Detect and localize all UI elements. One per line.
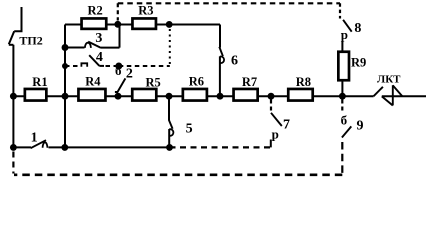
svg-text:R9: R9 (351, 55, 366, 69)
resistor R4 (78, 89, 105, 101)
node switch1 line x13.4 (10, 144, 17, 151)
switch 6 upper wire (219, 25, 221, 48)
svg-text:R3: R3 (138, 3, 153, 17)
node bus x220 (217, 93, 224, 100)
wire dashed row y66 to corner (119, 65, 170, 67)
resistor R1 (25, 89, 46, 101)
svg-text:3: 3 (95, 31, 102, 46)
switch 4 dashed line left (65, 65, 78, 67)
contact LKT bowtie bar (392, 85, 394, 105)
switch 6 arc (220, 57, 224, 64)
node bus x342 (339, 93, 346, 100)
svg-text:ТП2: ТП2 (19, 33, 42, 47)
node bus x65 (62, 93, 69, 100)
switch 6 lower wire (219, 56, 221, 96)
svg-text:ЛКТ: ЛКТ (377, 74, 401, 86)
svg-text:2: 2 (126, 67, 133, 82)
switch 1 blade (31, 140, 46, 148)
switch 9 dashed lower (341, 142, 343, 175)
wire bus right of LKT (382, 95, 426, 97)
resistor R5 (132, 89, 156, 101)
contact LKT blade (374, 87, 383, 96)
switch 5 blade (169, 120, 173, 129)
node switch4 x65 (62, 63, 68, 69)
svg-text:R4: R4 (85, 75, 101, 89)
resistor R6 (183, 89, 207, 101)
wire R9 lower lead (341, 81, 343, 96)
switch 8 blade (343, 20, 352, 32)
resistor R2 (82, 18, 107, 28)
node bus x169 (166, 93, 173, 100)
svg-text:6: 6 (231, 54, 238, 69)
svg-text:9: 9 (357, 119, 364, 134)
wire dashed switch1-line extension to switch 7 (170, 146, 271, 148)
contact LKT lower triangle hypotenuse (382, 96, 393, 105)
svg-text:б: б (341, 112, 348, 127)
node bus x271 (268, 93, 275, 100)
switch 6 blade (219, 47, 223, 56)
wire dashed left lower vertical (12, 152, 14, 174)
wire dashed corner right down to switch 8 (339, 3, 341, 18)
wire left vertical from TP2 to switch1 line (12, 45, 14, 148)
svg-text:р: р (341, 27, 348, 42)
svg-text:8: 8 (354, 21, 361, 36)
wire left branch vertical x65 (64, 25, 66, 148)
switch 4 dashed line right (106, 65, 119, 67)
svg-text:7: 7 (283, 118, 290, 133)
wire top line horizontal (65, 24, 220, 26)
svg-text:R5: R5 (146, 76, 161, 90)
switch 7 dashed upper (270, 100, 272, 113)
switch 9 blade (342, 126, 351, 137)
switch 3 line (65, 25, 120, 48)
svg-text:R8: R8 (296, 75, 311, 89)
node switch1 line x64.8 (61, 144, 68, 151)
switch 4 line stub (99, 65, 104, 67)
contact LKT upper triangle hypotenuse (393, 85, 403, 96)
switch 5 arc (169, 129, 173, 136)
resistor R9 (338, 52, 349, 81)
svg-text:R2: R2 (88, 3, 103, 17)
svg-text:5: 5 (186, 121, 193, 136)
switch 4 arc (81, 63, 87, 67)
svg-text:р: р (272, 127, 279, 142)
wire main bus horizontal (13, 95, 373, 97)
switch 2 blade (115, 78, 126, 92)
svg-text:1: 1 (31, 131, 38, 146)
switch 4 blade (89, 55, 99, 66)
connector TP2 upper lead (14, 7, 21, 31)
switch 7 lower contact stub (270, 140, 272, 148)
switch 9 dashed upper (341, 100, 343, 112)
svg-text:4: 4 (96, 50, 103, 65)
switch 1 arc (43, 142, 48, 147)
node top line x118.5 (114, 21, 121, 28)
svg-text:R1: R1 (32, 75, 47, 89)
node top line x169.6 (166, 21, 173, 28)
node switch1 line x169.5 (166, 144, 173, 151)
wire dotted vertical x170 (169, 29, 171, 66)
resistor R3 (132, 18, 156, 28)
wire switch1 line horizontal (13, 146, 169, 148)
resistor R8 (288, 89, 312, 101)
resistor R7 (234, 89, 258, 101)
switch 7 blade (271, 113, 282, 126)
node row y66 x118.8 (115, 63, 122, 70)
wire R9 upper lead (341, 41, 343, 52)
svg-text:R6: R6 (189, 75, 204, 89)
switch 3 blade (88, 42, 101, 48)
switch 5 lower wire (168, 129, 170, 147)
switch 5 upper wire (168, 96, 170, 120)
node bus TP2 (10, 93, 17, 100)
connector TP2 lower hook (9, 44, 14, 46)
wire dashed top border (118, 2, 340, 4)
wire dashed bottom border (14, 174, 342, 177)
connector TP2 blade (9, 31, 14, 44)
switch 3 arc (85, 43, 91, 48)
node bus x118 (115, 93, 122, 100)
node switch3 x65 (62, 44, 69, 51)
wire dashed corner left down to top line (117, 3, 119, 20)
svg-text:R7: R7 (242, 75, 257, 89)
